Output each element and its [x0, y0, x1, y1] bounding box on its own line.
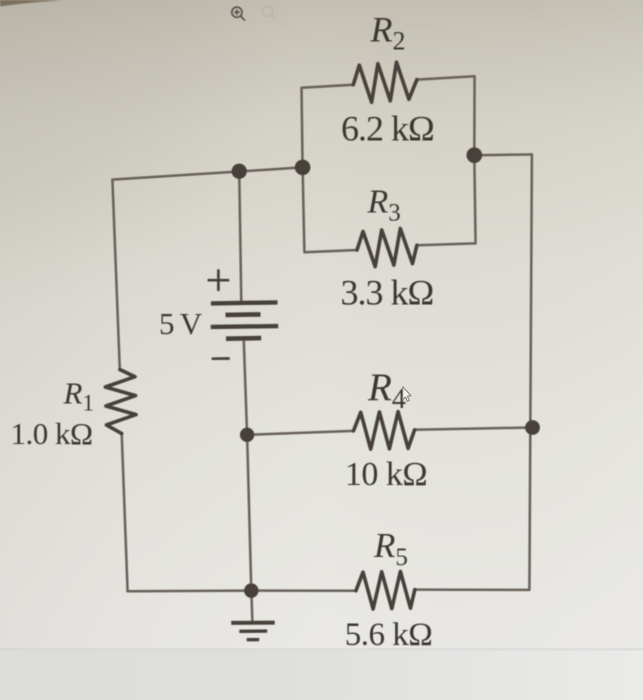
node dot: R4 left junction — [240, 428, 254, 442]
svg-text:5.6 kΩ: 5.6 kΩ — [345, 617, 433, 653]
svg-text:1.0 kΩ: 1.0 kΩ — [10, 416, 92, 451]
node dot: right rail R4 junction — [525, 420, 540, 435]
wire R4 left lead — [247, 431, 353, 435]
wire left vertical upper — [112, 180, 119, 370]
node dot: parallel-loop left junction — [295, 160, 311, 176]
svg-text:6.2 kΩ: 6.2 kΩ — [341, 108, 434, 148]
wire battery bottom lead — [244, 339, 252, 591]
wire left vertical lower — [122, 434, 128, 592]
node dot: bottom ground junction — [244, 583, 258, 597]
node dot: parallel-loop right junction — [467, 147, 483, 163]
svg-text:5 V: 5 V — [159, 306, 203, 341]
node dot: top battery junction — [232, 164, 247, 179]
resistor R4 zigzag — [354, 412, 415, 450]
battery plus sign — [209, 271, 228, 290]
wire battery top lead — [239, 171, 241, 301]
faint magnifier icon — [263, 6, 276, 19]
wire R2 loop left — [302, 85, 354, 168]
resistor R1 zigzag — [105, 370, 136, 434]
battery minus sign — [213, 357, 229, 360]
wire bottom right — [415, 588, 530, 591]
wire R3 right lead — [417, 155, 476, 245]
resistor R3 zigzag — [357, 229, 417, 267]
wire R4 right lead — [415, 428, 533, 430]
wire bottom left — [128, 589, 356, 592]
screen bottom edge — [0, 650, 643, 700]
ground — [231, 623, 275, 640]
magnifier icon (zoom-in) — [232, 7, 245, 20]
battery B1 plates (5 V source) — [211, 302, 279, 338]
resistor R2 zigzag — [353, 62, 417, 102]
wire R3 left lead — [303, 167, 357, 252]
svg-text:10 kΩ: 10 kΩ — [345, 456, 427, 493]
svg-text:3.3 kΩ: 3.3 kΩ — [341, 273, 434, 313]
wire right vertical — [529, 155, 532, 590]
resistor R5 zigzag — [356, 571, 415, 609]
wire node to right rail — [474, 153, 532, 156]
wire top horizontal — [112, 167, 302, 179]
mouse cursor — [403, 387, 411, 402]
photo corner dark sliver (top-left) — [0, 0, 64, 6]
wire R2 right lead — [417, 76, 475, 155]
wire ground stub — [251, 591, 252, 622]
